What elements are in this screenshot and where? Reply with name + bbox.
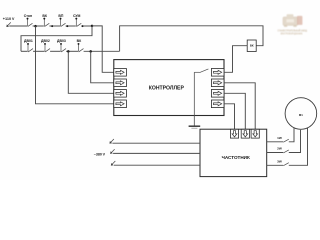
wire 2W to motor M1 — [289, 130, 301, 153]
svg-text:+110 V: +110 V — [3, 17, 15, 21]
switch SB2 — [43, 18, 49, 27]
pin L2 controller left input 2 — [114, 79, 127, 87]
wire 380V phase L3 to drive — [114, 164, 200, 166]
wire row2 output up to limit-switch box BK — [120, 26, 263, 52]
pin L4 controller left input 4 — [114, 100, 127, 108]
svg-text:СУМ: СУМ — [73, 14, 81, 18]
junction contact dot after SB3 — [66, 25, 68, 27]
svg-text:1W: 1W — [277, 136, 282, 140]
junction contact dot after SB2 — [51, 25, 53, 27]
connector arrow 380V phase L1 — [110, 139, 114, 144]
junction contact dot after SB4 — [82, 25, 84, 27]
svg-text:ДВ02: ДВ02 — [41, 39, 50, 43]
svg-text:М1: М1 — [299, 113, 303, 117]
pin T3 drive top input 3 — [251, 129, 259, 138]
wire row1 output to controller pin L1 — [92, 26, 114, 72]
wire drive output 3W segment — [267, 164, 284, 166]
wire 380V phase L2 to drive — [113, 152, 200, 154]
wire pin R3 to drive top pin 2 — [224, 93, 245, 129]
svg-text:2W: 2W — [277, 147, 282, 151]
wire 380V phase L1 to drive — [112, 142, 200, 144]
switch 1W motor winding contact — [283, 139, 288, 142]
pin R1 controller right output 1 — [211, 69, 224, 77]
svg-text:Стоп: Стоп — [24, 14, 32, 18]
wire node D to controller pin L2 — [91, 51, 114, 82]
wire drive output 1W segment — [267, 141, 284, 143]
svg-text:СТАНКОСТРОИТЕЛЬНЫЙ ЗАВОД: СТАНКОСТРОИТЕЛЬНЫЙ ЗАВОД — [278, 29, 308, 32]
switch SB1 — [27, 18, 33, 27]
svg-text:ДВ03: ДВ03 — [57, 39, 66, 43]
switch 2W motor winding contact — [283, 150, 288, 153]
controller U1 box — [114, 60, 224, 116]
logo watermark — [278, 14, 308, 36]
connector arrow +110V feeder — [6, 22, 10, 27]
svg-text:ЧАСТОТНИК: ЧАСТОТНИК — [222, 155, 250, 160]
switch SQ1 — [27, 43, 33, 52]
wire pin R4 to drive top pin 1 — [224, 104, 235, 130]
pin T1 drive top input 1 — [230, 129, 238, 138]
svg-text:3W: 3W — [277, 160, 282, 164]
svg-text:ВК: ВК — [250, 44, 254, 48]
wire row1 +110V bus y=26 — [33, 25, 93, 27]
wire row2 bus y=51.3 — [21, 50, 120, 52]
pin L1 controller left input 1 — [114, 69, 127, 77]
wire BK box to controller pin R1 — [224, 46, 247, 73]
wire row1 output down-left feed to row2 — [21, 26, 92, 51]
switch 3W motor winding contact — [283, 163, 288, 166]
wire controller internal common down to ground — [193, 116, 195, 126]
switch SQ3 — [60, 43, 66, 52]
connector arrow 380V phase L2 — [110, 149, 114, 154]
switch SQ4 — [78, 43, 84, 52]
svg-text:КОНТРОЛЛЕР: КОНТРОЛЛЕР — [149, 85, 185, 91]
motor M1 — [285, 98, 317, 130]
limit switch box BK — [247, 40, 256, 52]
wire pin R2 to drive top pin 3 — [224, 83, 255, 130]
junction node B row1 output — [91, 25, 94, 28]
wire 3W to motor M1 — [289, 128, 308, 166]
pin L3 controller left input 3 — [114, 90, 127, 98]
switch SB3 — [60, 18, 66, 27]
switch SB4 — [75, 18, 81, 27]
pin T2 drive top input 2 — [241, 129, 249, 138]
ground symbol — [189, 126, 201, 128]
svg-text:ДВ01: ДВ01 — [24, 39, 33, 43]
junction node C row2 tap to pin L3 — [67, 50, 70, 53]
pin R3 controller right output 3 — [211, 90, 224, 98]
pin R2 controller right output 2 — [211, 79, 224, 87]
svg-text:~380 V: ~380 V — [94, 153, 106, 157]
wire node A to controller pin L4 — [36, 26, 114, 104]
wire drive output 2W segment — [267, 152, 284, 154]
junction node D row2 tap to pin L2 — [89, 50, 92, 53]
svg-text:ВП: ВП — [58, 14, 63, 18]
wire node C to controller pin L3 — [68, 51, 113, 93]
wire +110V feed segment — [9, 25, 27, 27]
frequency drive U2 box — [200, 129, 267, 176]
connector arrow 380V phase L3 — [111, 161, 115, 166]
wire 1W to motor M1 — [289, 128, 294, 142]
relay contact K1 inside controller to pin R1 — [194, 69, 208, 116]
switch SQ2 — [44, 43, 50, 52]
pin R4 controller right output 4 — [211, 100, 224, 108]
junction node A row1 tap to pin L4 — [34, 25, 37, 28]
